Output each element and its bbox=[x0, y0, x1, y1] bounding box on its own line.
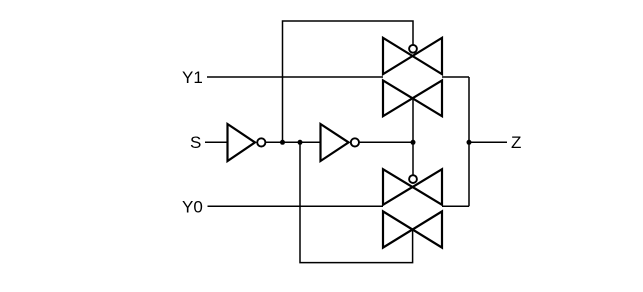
inverter U2 bubble bbox=[351, 138, 359, 146]
wire bottom gate right connector bbox=[442, 205, 469, 207]
wire S-bar loop to top gate bubble control bbox=[283, 21, 414, 142]
inverter U1 bubble bbox=[257, 138, 265, 146]
junction node A (S-bar) bbox=[280, 140, 285, 145]
wire node B down to bottom gate bubble control bbox=[412, 142, 414, 175]
junction node B (S buffered) bbox=[411, 140, 416, 145]
inverter U2 bbox=[321, 124, 349, 161]
wire Z output bbox=[469, 141, 507, 143]
wire node B up to top gate lower control bbox=[412, 98, 414, 142]
wire inverter U1 output to node A bbox=[266, 141, 322, 143]
svg-text:S: S bbox=[190, 133, 201, 152]
inverter U1 bbox=[228, 124, 256, 161]
transmission gate G1 lower bowtie bbox=[383, 80, 442, 116]
wire Y0 input bbox=[208, 205, 384, 207]
transmission gate G2 lower bowtie bbox=[383, 211, 442, 247]
transmission gate G2 (bottom) upper bowtie bbox=[383, 169, 442, 205]
wire inverter U2 output to node B bbox=[359, 141, 413, 143]
junction node A2 (S-bar branch) bbox=[298, 140, 303, 145]
transmission gate G1 bubble bbox=[409, 45, 417, 53]
junction node Z bbox=[467, 140, 472, 145]
wire S input bbox=[205, 141, 228, 143]
svg-text:Z: Z bbox=[511, 133, 521, 152]
wire output bus bbox=[468, 77, 470, 206]
svg-text:Y0: Y0 bbox=[182, 197, 203, 216]
transmission gate G2 bubble bbox=[409, 175, 417, 183]
transmission gate G1 (top) upper bowtie bbox=[383, 38, 442, 74]
wire top gate right connector bbox=[442, 76, 469, 78]
svg-text:Y1: Y1 bbox=[182, 68, 203, 87]
wire Y1 input bbox=[207, 76, 383, 78]
wire S-bar loop to bottom gate lower control bbox=[300, 142, 413, 262]
